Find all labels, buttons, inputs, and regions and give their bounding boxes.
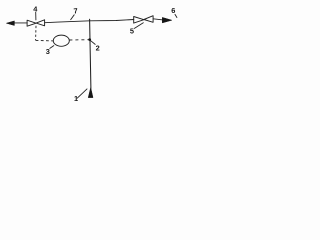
dashed control line: element 3 to node 2 [69,39,88,41]
label 3 with leader [46,46,54,57]
valve V4 (bowtie) [27,20,44,26]
outlet arrow stream 6 (filled, pointing right) [162,17,172,23]
svg-text:1: 1 [74,94,78,103]
outlet arrow (left, filled) [6,21,14,26]
inlet arrow stream 1 (filled arrowhead at bottom of vertical line) [88,87,93,97]
wire: main pipe 7 between valve 4 and valve 5 (through node) [45,20,134,23]
label 7 (pipe) with leader [71,6,78,19]
label 6 with leader [171,6,177,17]
svg-text:6: 6 [171,6,175,15]
dashed control line: valve 4 down [35,26,37,40]
instrument 3 (ellipse) [53,35,69,46]
dashed control line: horizontal to element 3 [36,39,54,42]
wire: vertical line from main pipe down to inlet 1 [90,19,91,88]
svg-text:5: 5 [130,27,134,36]
svg-text:2: 2 [96,44,100,53]
svg-text:7: 7 [73,6,78,15]
valve V5 (bowtie) [134,16,153,23]
label 1 [74,89,87,103]
svg-text:3: 3 [46,47,50,56]
label 2 with leader [91,41,100,53]
wire: valve 5 to outlet arrow 6 [153,19,163,20]
wire: main pipe from left arrow to valve 4 [14,22,27,24]
label 4 with leader [33,5,38,20]
node 2 (junction dot) [88,38,91,41]
label 5 with leader [130,23,143,36]
